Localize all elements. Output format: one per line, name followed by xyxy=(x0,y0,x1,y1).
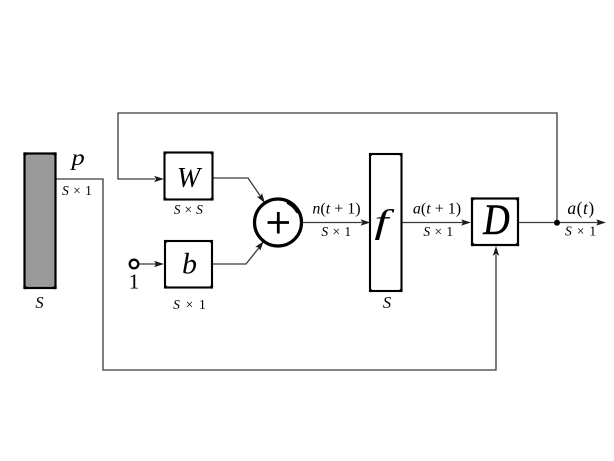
svg-text:S × S: S × S xyxy=(174,202,203,217)
svg-text:S × 1: S × 1 xyxy=(321,224,351,239)
svg-text:W: W xyxy=(177,163,203,194)
svg-text:S × 1: S × 1 xyxy=(173,297,207,312)
svg-text:S: S xyxy=(35,293,43,312)
svg-text:S: S xyxy=(383,293,391,312)
svg-text:1: 1 xyxy=(129,270,140,294)
svg-text:n(t + 1): n(t + 1) xyxy=(312,201,360,218)
svg-text:S × 1: S × 1 xyxy=(565,224,597,239)
svg-text:p: p xyxy=(69,145,84,170)
svg-text:D: D xyxy=(482,195,509,243)
svg-text:a(t + 1): a(t + 1) xyxy=(413,201,461,218)
svg-text:a(t): a(t) xyxy=(567,198,594,218)
svg-text:S × 1: S × 1 xyxy=(62,183,92,198)
svg-text:S × 1: S × 1 xyxy=(423,224,453,239)
svg-text:b: b xyxy=(182,248,197,281)
